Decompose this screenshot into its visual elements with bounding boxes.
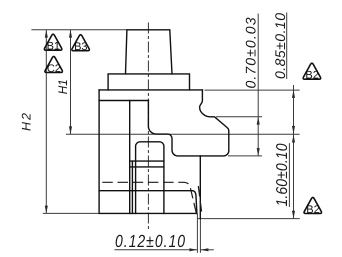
svg-text:B1: B1 bbox=[47, 41, 60, 53]
svg-text:1.60±0.10: 1.60±0.10 bbox=[272, 143, 290, 206]
svg-text:B3: B3 bbox=[74, 41, 87, 53]
svg-text:0.85±0.10: 0.85±0.10 bbox=[272, 13, 288, 79]
svg-text:H1: H1 bbox=[56, 79, 70, 94]
svg-text:0.70±0.03: 0.70±0.03 bbox=[243, 17, 259, 88]
svg-text:H2: H2 bbox=[20, 113, 34, 131]
svg-text:B2: B2 bbox=[306, 204, 319, 216]
svg-text:0.12±0.10: 0.12±0.10 bbox=[115, 231, 185, 251]
svg-text:B2: B2 bbox=[305, 70, 318, 82]
svg-text:C2: C2 bbox=[47, 63, 61, 75]
